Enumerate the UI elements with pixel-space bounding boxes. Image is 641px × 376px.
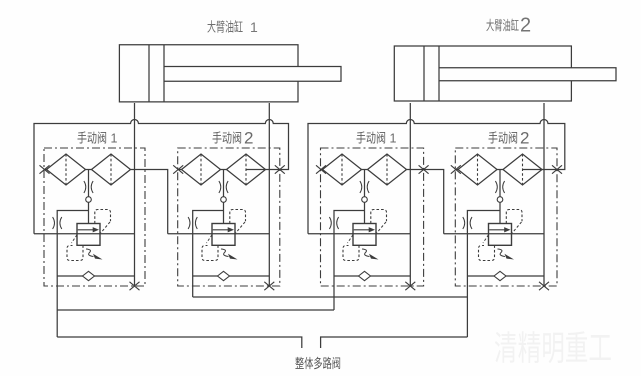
valve 1 bottom wire	[57, 275, 134, 277]
svg-text:2: 2	[244, 129, 253, 148]
svg-text:1: 1	[250, 19, 258, 35]
valve 4 drain descender wire	[466, 276, 468, 337]
valve 3 relief valve body	[353, 224, 376, 246]
valve 1 plugged port X bottom	[130, 282, 140, 290]
valve 2 check-valve diamond right	[227, 154, 266, 185]
valve 1 throttle orifice on center line	[84, 181, 93, 193]
valve 4 feed line	[444, 233, 544, 235]
valve 4 spring adjust arrow	[498, 249, 515, 260]
valve 2 pilot dashed box upper	[230, 210, 246, 234]
valve 1 drain descender wire	[56, 276, 58, 337]
valve 3 to valve 4 transfer wire	[407, 170, 444, 234]
watermark	[494, 330, 612, 368]
valve 2 plugged port X bottom	[264, 282, 274, 290]
valve 2 relief valve internal flow arrow	[213, 227, 234, 232]
valve 3 pilot dashed box upper	[371, 210, 387, 234]
valve 3 node circle	[362, 197, 368, 203]
valve 4 pilot out wire	[523, 169, 558, 171]
valve 4 relief valve internal flow arrow	[489, 227, 510, 232]
valve 4 plugged port X right	[552, 165, 562, 173]
bus wire T3 right	[321, 337, 468, 348]
valve 4 pilot line segment between diamonds	[497, 169, 503, 171]
valve 1 label 手动阀	[77, 131, 118, 146]
valve 1 pilot dashed box upper	[95, 210, 111, 234]
valve 4 pilot dashed box lower	[479, 235, 495, 261]
valve 3 pilot line segment between diamonds	[362, 169, 368, 171]
valve 1 spring adjust arrow	[86, 249, 103, 260]
valve 4 bottom port diamond	[494, 271, 506, 280]
cylinder 2 piston	[424, 46, 439, 101]
svg-text:清精明重工: 清精明重工	[494, 330, 612, 368]
valve 2 cylinder port wire	[268, 103, 270, 286]
valve 2 center vertical wire	[223, 170, 225, 224]
valve 1 plugged port X left	[40, 165, 50, 173]
valve 1 to valve 2 transfer wire	[131, 170, 168, 234]
valve 3 check-valve diamond right	[368, 154, 407, 185]
valve 3 pilot line left stub	[321, 169, 323, 171]
valve 4 center vertical wire	[499, 170, 501, 224]
valve 3 throttle orifice on center line	[360, 181, 369, 193]
valve 2 check-valve diamond left	[182, 154, 221, 185]
valve 3 feed line	[308, 233, 410, 235]
valve 4 relief valve body	[489, 224, 512, 246]
valve 2 throttle orifice on center line	[219, 181, 228, 193]
valve 3 cylinder port wire	[409, 103, 411, 286]
valve 2 spring adjust arrow	[221, 249, 238, 260]
valve 2 node circle	[221, 197, 227, 203]
valve 4 throttle orifice on drain line	[463, 217, 472, 229]
valve 2 dash-dot enclosure	[178, 148, 280, 286]
valve 2 bottom port diamond	[218, 271, 230, 280]
valve 2 drain descender wire	[192, 276, 194, 297]
valve 3 drain descender wire	[333, 276, 335, 310]
valve 1 dash-dot enclosure	[44, 148, 145, 286]
valve 3 bottom wire	[334, 275, 410, 277]
valve 4 drain link wire	[467, 211, 500, 277]
valve 4 pilot line left stub	[456, 169, 458, 171]
valve 4 label 手动阀	[488, 129, 529, 148]
cylinder 1 label 大臂油缸1	[207, 19, 258, 35]
svg-text:手动阀: 手动阀	[356, 131, 386, 146]
valve 1 pilot dashed box lower	[67, 235, 83, 261]
valve 1 pilot line segment between diamonds	[86, 169, 92, 171]
valve 2 plugged port X right	[275, 165, 285, 173]
valve 3 bottom port diamond	[359, 271, 371, 280]
cylinder 2 body	[394, 46, 571, 101]
valve 3 plugged port X bottom	[405, 282, 415, 290]
bus wire T1	[193, 296, 468, 298]
cylinder 1 piston rod	[164, 67, 341, 82]
cylinder 1 piston	[149, 45, 164, 102]
cylinder 2 piston rod	[439, 68, 616, 81]
valve 4 check-valve diamond left	[458, 154, 497, 185]
valve 3 drain link wire	[334, 211, 365, 277]
svg-text:手动阀: 手动阀	[77, 131, 107, 146]
valve 2 feed line	[168, 233, 270, 235]
svg-text:2: 2	[520, 129, 529, 148]
valve 3 check-valve diamond left	[323, 154, 362, 185]
valve 4 dash-dot enclosure	[455, 148, 557, 286]
valve 1 bottom port diamond	[83, 271, 95, 280]
valve 1 relief valve body	[77, 224, 100, 246]
valve 3 dash-dot enclosure	[321, 148, 424, 286]
valve 2 label 手动阀	[212, 129, 253, 148]
valve 1 check-valve diamond right	[92, 154, 131, 185]
cylinder 1 body	[119, 45, 298, 102]
valve 4 plugged port X left	[451, 165, 461, 173]
svg-text:手动阀: 手动阀	[488, 131, 518, 146]
svg-text:大臂油缸: 大臂油缸	[207, 20, 243, 35]
svg-text:手动阀: 手动阀	[212, 131, 242, 146]
valve 3 label 手动阀	[356, 131, 397, 146]
valve 2 pilot line left stub	[178, 169, 181, 171]
valve 3 spring adjust arrow	[362, 249, 379, 260]
valve 1 drain link wire	[57, 211, 88, 277]
valve 3 plugged port X left	[316, 165, 326, 173]
valve 2 pilot dashed box lower	[202, 235, 218, 261]
bus wire T3 left	[57, 337, 302, 348]
bus wire T2	[57, 309, 334, 311]
valve 3 plugged port X right	[419, 165, 429, 173]
valve 3 relief valve internal flow arrow	[354, 227, 375, 232]
valve 4 pilot dashed box upper	[506, 210, 522, 234]
svg-text:整体多路阀: 整体多路阀	[295, 356, 341, 371]
valve 3 pilot dashed box lower	[343, 235, 359, 261]
supply loop A wire	[34, 120, 289, 234]
valve 3 throttle orifice on drain line	[329, 217, 338, 229]
valve 1 pilot line left stub	[45, 169, 47, 171]
manifold label 整体多路阀	[295, 356, 341, 371]
valve 1 center vertical wire	[88, 170, 90, 224]
valve 2 bottom wire	[193, 275, 270, 277]
svg-text:2: 2	[520, 15, 531, 37]
valve 3 center vertical wire	[364, 170, 366, 224]
valve 1 check-valve diamond left	[47, 154, 86, 185]
valve 2 throttle orifice on drain line	[188, 217, 197, 229]
valve 1 relief valve internal flow arrow	[78, 227, 99, 232]
valve 4 node circle	[497, 197, 503, 203]
valve 1 throttle orifice on drain line	[53, 217, 62, 229]
valve 2 pilot line segment between diamonds	[221, 169, 227, 171]
svg-text:大臂油缸: 大臂油缸	[486, 18, 519, 33]
valve 1 node circle	[86, 197, 92, 203]
valve 2 plugged port X left	[173, 165, 183, 173]
valve 4 check-valve diamond right	[503, 154, 542, 185]
cylinder 2 label 大臂油缸2	[486, 15, 531, 37]
svg-text:1: 1	[111, 132, 118, 146]
valve 1 cylinder port wire	[134, 103, 136, 286]
valve 4 plugged port X bottom	[539, 282, 549, 290]
valve 1 feed line	[34, 233, 135, 235]
supply loop B wire	[308, 120, 565, 234]
valve 2 relief valve body	[212, 224, 235, 246]
valve 2 drain link wire	[193, 211, 224, 277]
valve 4 bottom wire	[467, 275, 544, 277]
valve 4 cylinder port wire	[543, 103, 545, 286]
valve 2 pilot out wire	[246, 169, 280, 171]
svg-text:1: 1	[390, 132, 397, 146]
valve 4 throttle orifice on center line	[495, 181, 504, 193]
